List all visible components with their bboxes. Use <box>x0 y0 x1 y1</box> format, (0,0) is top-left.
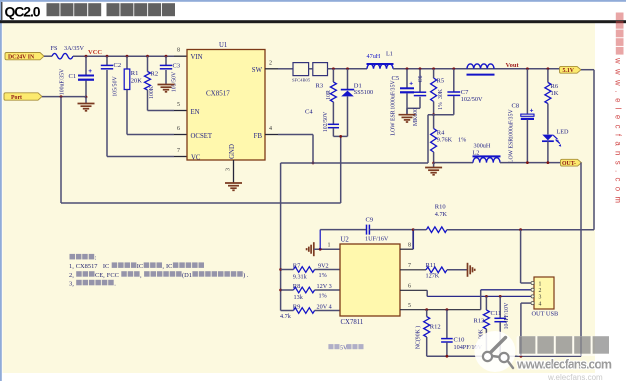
wire C9 top run <box>320 229 366 231</box>
node port-gndline <box>60 95 63 98</box>
svg-text:C4: C4 <box>305 109 313 116</box>
svg-text:FCC: FCC <box>107 272 119 279</box>
svg-text:EN: EN <box>191 109 200 116</box>
svg-text:1%: 1% <box>319 272 327 279</box>
svg-text:L2: L2 <box>473 150 480 157</box>
svg-text:7: 7 <box>177 148 180 154</box>
inductor L1 <box>367 64 393 69</box>
svg-text:C10: C10 <box>454 336 465 343</box>
wire OUT- right <box>580 162 583 164</box>
ferrite bead FB1 box2 <box>313 63 328 76</box>
pin 7 stub U2 <box>400 269 426 271</box>
svg-text:20K: 20K <box>131 77 143 84</box>
svg-text:R11: R11 <box>426 262 437 269</box>
svg-text:U1: U1 <box>219 42 227 49</box>
node pin5-C10 <box>446 308 449 311</box>
node gnd-C10 <box>446 355 449 358</box>
wire OUT- drop <box>580 163 582 357</box>
svg-text:R7: R7 <box>293 262 301 269</box>
node SW-D1 <box>346 67 349 70</box>
pin 7 stub <box>174 156 187 158</box>
ground U1 GND <box>225 182 242 184</box>
wire pin8 riser <box>412 230 414 250</box>
svg-text:IC: IC <box>103 263 109 270</box>
svg-text:102/50V: 102/50V <box>461 96 483 103</box>
svg-text:FS: FS <box>51 45 58 52</box>
svg-text:C6: C6 <box>418 76 424 83</box>
svg-text:3,: 3, <box>69 281 74 288</box>
svg-text:GND: GND <box>229 144 236 159</box>
capacitor C10 <box>446 310 448 339</box>
wire R9 left <box>281 310 294 312</box>
wire R11 to gnd <box>447 269 468 271</box>
title underline <box>0 20 626 23</box>
node gnd-C11 <box>499 355 502 358</box>
svg-text:R4: R4 <box>437 130 445 137</box>
resistor R7 <box>293 267 314 273</box>
ground C1 <box>85 97 87 104</box>
svg-text:) .: ) . <box>243 272 249 279</box>
wire DC24V to fuse <box>44 55 52 57</box>
node C9-R10 <box>412 228 415 231</box>
svg-text:8: 8 <box>177 48 180 54</box>
svg-text:R12: R12 <box>430 324 441 331</box>
svg-text:R3: R3 <box>316 83 324 90</box>
svg-text:2: 2 <box>269 61 272 67</box>
svg-text:CX8517: CX8517 <box>76 263 98 270</box>
diode D1 SS5100 <box>347 69 349 89</box>
wire gnd-net riser to D1 <box>340 136 342 203</box>
connector OUT USB body <box>534 277 554 309</box>
svg-text:300uH: 300uH <box>474 143 491 150</box>
inductor L2 <box>473 158 500 163</box>
svg-text:105/50V: 105/50V <box>113 76 119 97</box>
node outm-C8 <box>526 161 529 164</box>
svg-text:www.elecfans.com: www.elecfans.com <box>516 358 612 372</box>
wire R8 left <box>281 289 294 291</box>
wire pin5 riser <box>480 290 482 310</box>
svg-text:LOW ESR: LOW ESR <box>509 138 515 163</box>
capacitor C2 <box>106 56 108 65</box>
svg-text:4: 4 <box>539 301 542 307</box>
label sheet name <box>328 344 333 349</box>
ground R4 <box>433 163 435 168</box>
svg-text:CE,: CE, <box>95 272 105 279</box>
svg-text:R6: R6 <box>551 83 559 90</box>
wire 5.1V drop <box>593 70 595 230</box>
svg-text:R1: R1 <box>131 70 139 77</box>
svg-text:105/50V: 105/50V <box>172 71 178 92</box>
svg-text:2: 2 <box>539 288 542 294</box>
watermark circle logo <box>475 331 516 372</box>
connector 5.1V <box>560 66 582 73</box>
resistor R4 <box>433 115 435 129</box>
svg-text:R2: R2 <box>151 71 159 78</box>
capacitor C11 <box>499 296 501 318</box>
resistor R13 <box>485 296 487 310</box>
wire between beads <box>309 68 313 70</box>
svg-text:LOW ESR: LOW ESR <box>391 110 397 135</box>
svg-text:5: 5 <box>408 303 411 309</box>
usb pin 3 circle <box>531 295 534 298</box>
capacitor C5 <box>406 69 408 88</box>
inductor L3 output filter <box>467 64 494 69</box>
wire C4-D1 join <box>333 135 347 137</box>
svg-text:CX8517: CX8517 <box>206 90 230 98</box>
svg-text:3: 3 <box>539 295 542 301</box>
svg-text:C2: C2 <box>114 62 122 69</box>
svg-text:1: 1 <box>328 242 331 248</box>
wire R7 left <box>281 269 294 271</box>
svg-text:SW: SW <box>252 67 263 74</box>
svg-text:6: 6 <box>177 126 180 132</box>
op-amp U1 body CX8517 <box>187 50 265 161</box>
svg-text:20V 4: 20V 4 <box>317 304 332 311</box>
connector P2 Port <box>4 93 42 100</box>
svg-text:C3: C3 <box>173 63 181 70</box>
top border line <box>0 0 626 2</box>
svg-text:9V2: 9V2 <box>318 263 329 270</box>
wire usb pin4 <box>520 303 522 356</box>
svg-text:C9: C9 <box>366 216 374 223</box>
svg-text:102/50V: 102/50V <box>323 111 329 132</box>
svg-text:100uF/35V: 100uF/35V <box>60 68 66 95</box>
svg-text:U2: U2 <box>341 236 350 243</box>
svg-text:OCSET: OCSET <box>191 133 213 140</box>
svg-text::: : <box>95 255 97 262</box>
svg-text:CX7811: CX7811 <box>341 319 364 326</box>
svg-text:(D1: (D1 <box>182 272 192 279</box>
wire gnd-net bottom run <box>61 202 341 204</box>
wire SW out <box>278 68 293 70</box>
capacitor C6 <box>419 69 421 92</box>
svg-text:4.7K: 4.7K <box>435 211 448 218</box>
svg-text:VCC: VCC <box>88 49 102 56</box>
node VCC-C3 <box>165 55 168 58</box>
wire bead to L1 <box>328 68 368 70</box>
resistor R8 <box>293 287 314 293</box>
svg-text:+: + <box>88 68 92 75</box>
svg-text:1%: 1% <box>438 102 444 110</box>
watermark brand text <box>519 336 535 354</box>
svg-text:VC: VC <box>191 155 201 162</box>
wire VC route <box>107 156 174 158</box>
wire Port <box>42 96 86 98</box>
node pin5-R12 <box>425 308 428 311</box>
capacitor C8 <box>526 69 528 114</box>
pin 5 stub <box>174 110 187 112</box>
svg-text:10R: 10R <box>326 90 332 100</box>
wire bottom gnd run <box>427 355 581 357</box>
svg-text:R13: R13 <box>474 318 485 325</box>
wire gnd-net left drop <box>60 97 62 203</box>
svg-text:OUT USB: OUT USB <box>532 310 559 317</box>
pin 5 stub U2 <box>400 309 481 311</box>
wire R5b-C7b <box>428 114 454 116</box>
usb pin 4 circle <box>531 302 534 305</box>
svg-text:1%: 1% <box>458 137 466 144</box>
resistor R5 <box>433 69 435 78</box>
node bus-R8 <box>279 289 282 292</box>
node out-C8 <box>526 67 529 70</box>
svg-text:1,: 1, <box>69 263 74 270</box>
LED D2 <box>542 135 553 141</box>
node out-C5 <box>406 67 409 70</box>
svg-text:LED: LED <box>557 129 570 136</box>
svg-text:R10: R10 <box>435 203 446 210</box>
pin 6 stub U2 <box>400 289 427 291</box>
watermark right edge <box>614 13 624 204</box>
wire R10 line left <box>413 229 426 231</box>
svg-text:IC: IC <box>137 263 143 270</box>
svg-text:w.elecfans.com: w.elecfans.com <box>547 373 603 381</box>
capacitor C4 <box>328 123 339 125</box>
pin 3 stub GND <box>233 160 235 183</box>
svg-text:OUT-: OUT- <box>562 161 576 167</box>
svg-text:7: 7 <box>408 263 411 269</box>
svg-text:+: + <box>409 81 413 88</box>
node VCC-C1 <box>85 55 88 58</box>
svg-text:MK600: MK600 <box>413 108 419 126</box>
node VCC-R2 <box>146 55 149 58</box>
svg-text:VIN: VIN <box>191 54 203 61</box>
left border line <box>0 1 2 381</box>
ground C3 <box>158 84 175 86</box>
wire OCSET route <box>127 134 174 136</box>
svg-text:C1: C1 <box>69 73 77 80</box>
resistor R10 <box>426 227 447 233</box>
svg-text:12V 3: 12V 3 <box>317 283 332 290</box>
capacitor C3 <box>165 56 167 65</box>
svg-text:1000uF/35V: 1000uF/35V <box>391 80 397 110</box>
svg-text:FB: FB <box>254 133 263 140</box>
node gnd-usb4 <box>520 355 523 358</box>
svg-text:IC: IC <box>166 263 172 270</box>
wire EN route <box>148 110 175 112</box>
node usb vbus tap <box>519 228 522 231</box>
transistor U2 body CX7811 <box>340 244 400 316</box>
svg-text:1: 1 <box>539 281 542 287</box>
node VCC-R1 <box>126 55 129 58</box>
node SW-R3 <box>332 67 335 70</box>
resistor R11 <box>426 267 447 273</box>
fuse FS <box>52 53 73 59</box>
svg-text:3A/35V: 3A/35V <box>64 45 84 52</box>
node gnd-R13 <box>485 355 488 358</box>
svg-text:4.7k: 4.7k <box>280 313 292 320</box>
wire L2 to OUT- <box>500 162 561 164</box>
svg-text:SS5100: SS5100 <box>354 89 373 96</box>
svg-text:8: 8 <box>408 242 411 248</box>
svg-text:1UF/16V: 1UF/16V <box>365 236 389 243</box>
svg-text:C8: C8 <box>512 103 520 110</box>
wire OUT- run <box>434 162 473 164</box>
capacitor C9 <box>366 225 368 235</box>
svg-text:9.31k: 9.31k <box>293 274 308 281</box>
svg-text:R9: R9 <box>293 303 301 310</box>
pin 4 stub FB <box>265 134 278 136</box>
pin 2 stub SW <box>265 68 278 70</box>
svg-text:DC24V IN: DC24V IN <box>8 55 35 61</box>
usb pin 2 circle <box>531 288 534 291</box>
wire FB run <box>281 162 428 164</box>
wire L1 to Vout <box>393 68 561 70</box>
ground C5 C6 <box>406 108 408 114</box>
title left tick <box>1 2 2 20</box>
resistor R12 <box>426 310 428 317</box>
notes text <box>70 254 76 260</box>
node D+ R13 <box>485 295 488 298</box>
svg-text:Port: Port <box>11 95 22 101</box>
svg-text:R5: R5 <box>437 78 445 85</box>
wire pin6 step <box>426 290 428 296</box>
svg-text:30K: 30K <box>438 88 444 99</box>
svg-text:3: 3 <box>226 168 232 171</box>
svg-text:L1: L1 <box>386 51 393 58</box>
svg-text:100K: 100K <box>149 85 155 99</box>
wire VCC bus <box>73 55 174 57</box>
node FB <box>312 162 315 165</box>
svg-text:5.1V: 5.1V <box>563 68 575 74</box>
node outm-LED <box>547 161 550 164</box>
node bus-R7 <box>279 268 282 271</box>
node pin1-C9 <box>319 248 322 251</box>
node R4 gnd <box>432 162 435 165</box>
wire R10 line right <box>447 229 594 231</box>
capacitor C7 <box>453 69 455 92</box>
ferrite bead FB1 box1 <box>293 63 309 76</box>
svg-text:6: 6 <box>408 284 411 290</box>
svg-text:104PF/10V: 104PF/10V <box>504 302 510 330</box>
resistor R2 <box>147 56 149 71</box>
resistor R1 <box>126 56 128 69</box>
usb pin 1 circle <box>531 281 534 284</box>
pin 6 stub <box>174 134 187 136</box>
svg-text:4: 4 <box>269 126 272 132</box>
svg-text:R8: R8 <box>293 283 301 290</box>
resistor R9 <box>293 308 314 314</box>
node snubber gnd <box>339 135 342 138</box>
resistor R3 <box>332 69 334 82</box>
wire FB out <box>278 134 313 136</box>
svg-text:9.76K: 9.76K <box>437 137 453 144</box>
wire usb pin1 <box>520 230 522 283</box>
svg-text:2,: 2, <box>69 272 74 279</box>
node out-R6 <box>547 67 550 70</box>
svg-text:QC2.0: QC2.0 <box>5 4 41 20</box>
node D+ C11 <box>499 295 502 298</box>
svg-text:SFC4B05: SFC4B05 <box>292 78 311 83</box>
wire R5b drop <box>427 115 429 163</box>
svg-text:127K: 127K <box>426 272 440 279</box>
ground R11 <box>467 263 469 277</box>
wire C9 left leg <box>319 230 321 250</box>
LED arrows <box>553 135 560 143</box>
pin 8 stub U2 <box>400 248 413 250</box>
svg-text:+: + <box>530 108 534 115</box>
svg-text:Vout: Vout <box>506 62 520 69</box>
connector OUT- <box>561 159 582 166</box>
svg-text:13k: 13k <box>294 294 304 301</box>
svg-text:C11: C11 <box>491 310 502 317</box>
svg-text:1%: 1% <box>319 293 327 300</box>
resistor R6 <box>547 69 549 83</box>
node R5 R4 junction <box>432 113 435 116</box>
svg-text:1K: 1K <box>551 90 559 97</box>
watermark brand halo <box>517 336 613 356</box>
svg-text:5: 5 <box>177 102 180 108</box>
node out-R5 <box>432 67 435 70</box>
node out-C7 <box>452 67 455 70</box>
node out-C6 <box>419 67 422 70</box>
wire FB divider bus <box>280 163 282 311</box>
svg-text:NC(90K ): NC(90K ) <box>415 326 422 349</box>
node C1-port <box>85 96 88 99</box>
capacitor C1 <box>85 56 87 75</box>
node VCC-C2 <box>106 55 109 58</box>
ground U2 pin1 <box>313 242 315 256</box>
connector P1 DC24V IN <box>5 53 44 60</box>
wire 5.1V right <box>581 69 594 71</box>
pin 8 stub <box>174 55 187 57</box>
svg-text:1000uF/35V: 1000uF/35V <box>509 109 515 139</box>
svg-text:47uH: 47uH <box>367 53 381 60</box>
